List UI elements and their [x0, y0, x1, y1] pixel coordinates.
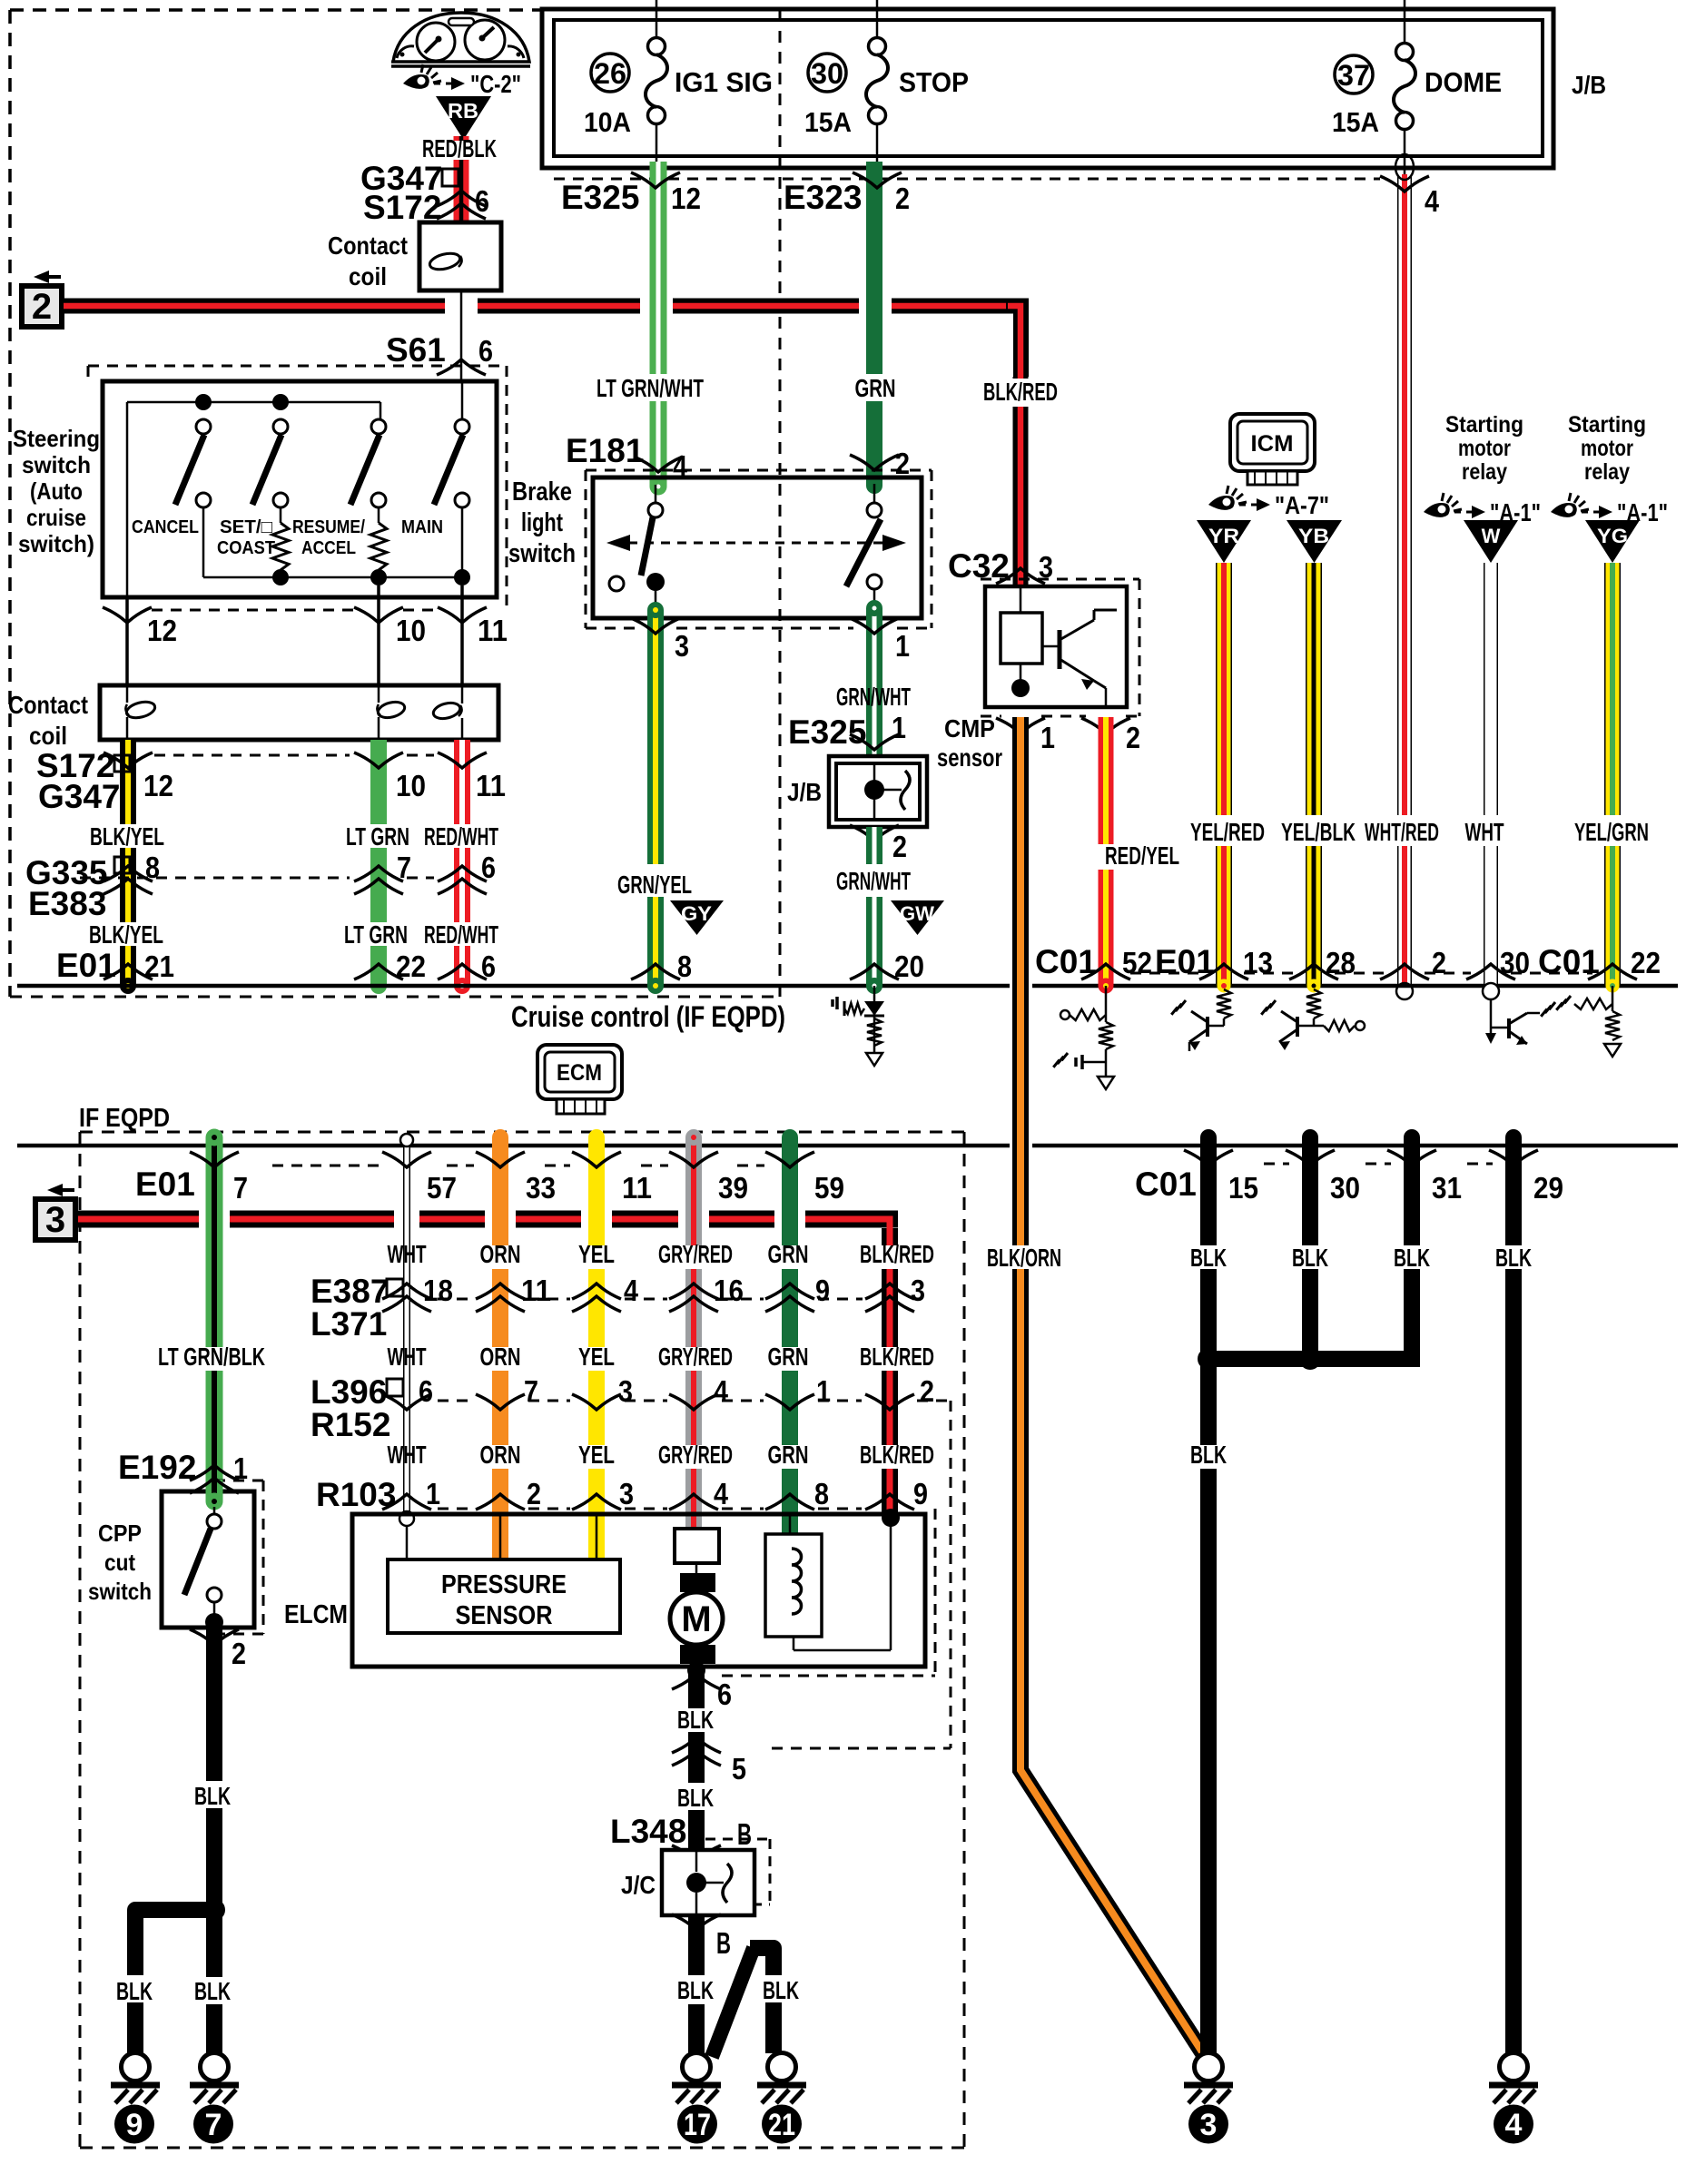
transistor network under C01-30 [1485, 999, 1555, 1045]
label BLK wire15 [1190, 1441, 1227, 1469]
label BLK/ORN [987, 1244, 1061, 1272]
connector C01 pin 52 [1035, 943, 1152, 980]
ELCM dashed boundary [722, 1509, 935, 1676]
svg-text:11: 11 [622, 1171, 652, 1205]
svg-text:ORN: ORN [480, 1240, 521, 1268]
svg-text:CPP: CPP [98, 1520, 142, 1547]
svg-text:30: 30 [1330, 1171, 1360, 1205]
connector E325 pin 12 [561, 172, 701, 216]
svg-text:LT GRN/BLK: LT GRN/BLK [158, 1343, 265, 1371]
svg-text:BLK: BLK [1190, 1441, 1227, 1469]
ICM icon [1230, 414, 1315, 485]
wire BLK elbow to ground 21 [712, 1940, 782, 2057]
svg-text:BLK: BLK [677, 1706, 714, 1734]
svg-text:GRY/RED: GRY/RED [658, 1240, 733, 1268]
svg-text:SET/□: SET/□ [220, 517, 272, 537]
wire LT GRN/WHT from fuse 26 [650, 162, 667, 496]
fuse 37 DOME 15A [1332, 44, 1502, 139]
brake switch right contact [846, 484, 882, 618]
BLK junction bar [1198, 1348, 1420, 1370]
diode-resistor network under E01-20 [833, 986, 884, 1066]
label Contact coil lower [8, 691, 88, 750]
brake light switch dashed box [586, 470, 932, 628]
svg-text:LT GRN: LT GRN [346, 822, 409, 851]
svg-text:LT GRN: LT GRN [344, 920, 408, 949]
svg-text:3: 3 [45, 1200, 65, 1240]
connector R103 row [316, 1476, 928, 1513]
svg-text:Cruise control (IF EQPD): Cruise control (IF EQPD) [511, 1000, 785, 1033]
eye symbol to C-2 [403, 64, 521, 98]
switch SET/COAST with resistor [217, 419, 289, 570]
connector S172/G347 row [36, 747, 506, 815]
svg-text:C01: C01 [1135, 1166, 1197, 1203]
wire fuse feed IG1 [656, 0, 658, 38]
svg-text:7: 7 [205, 2108, 222, 2142]
ground 3 [1184, 2053, 1233, 2104]
triangle GY [670, 900, 724, 935]
fuse 30 STOP 15A [804, 38, 969, 139]
svg-text:E192: E192 [118, 1449, 196, 1486]
svg-text:4: 4 [1505, 2108, 1523, 2142]
svg-text:BLK: BLK [677, 1784, 714, 1812]
ELCM motor assembly [670, 1529, 723, 1664]
resistor network under C01-52 [1053, 986, 1114, 1089]
svg-text:4: 4 [1425, 184, 1440, 218]
instrument cluster icon [391, 13, 530, 66]
svg-text:12: 12 [147, 614, 177, 647]
ground 21 number [762, 2105, 802, 2144]
connector E181 pins 3 and 1 [631, 618, 910, 663]
ground 3 number [1188, 2105, 1228, 2144]
svg-text:1: 1 [892, 711, 906, 744]
junction connector J/C box [621, 1839, 770, 1915]
svg-text:4: 4 [714, 1477, 729, 1510]
svg-text:E01: E01 [135, 1166, 195, 1203]
svg-text:BLK: BLK [1394, 1244, 1430, 1272]
svg-text:DOME: DOME [1425, 66, 1502, 98]
svg-text:COAST: COAST [217, 538, 275, 558]
svg-text:RESUME/: RESUME/ [292, 517, 365, 537]
connector E181 pins 4 and 2 [566, 432, 932, 483]
svg-text:8: 8 [677, 949, 692, 983]
connector S61 pin 6 [386, 331, 493, 375]
ground 7 [190, 2053, 239, 2104]
label GRN fuse30 [855, 374, 896, 402]
wire BLK C01-15 to ground 3 [1200, 1129, 1217, 2053]
harness line E01/C01 top [17, 984, 1678, 989]
eye symbol to A-1 second [1551, 493, 1668, 526]
svg-text:L371: L371 [311, 1305, 387, 1343]
connector L348 B [610, 1813, 752, 1861]
steering switch top bus wire [127, 402, 380, 597]
svg-text:11: 11 [521, 1274, 551, 1307]
svg-text:10: 10 [396, 769, 426, 802]
svg-text:E383: E383 [28, 885, 106, 922]
svg-text:(Auto: (Auto [30, 477, 83, 505]
svg-text:9: 9 [913, 1477, 928, 1510]
ground 7 number [193, 2105, 233, 2144]
svg-text:Contact: Contact [8, 691, 88, 719]
svg-text:GW: GW [900, 902, 934, 925]
svg-text:switch: switch [88, 1578, 152, 1605]
connector E01 pin 20 [850, 949, 924, 983]
wire fuse37 to pin4 [1404, 129, 1406, 174]
ECM icon [537, 1045, 622, 1114]
svg-text:SENSOR: SENSOR [456, 1601, 553, 1630]
svg-text:YEL/BLK: YEL/BLK [1281, 818, 1356, 846]
svg-text:B: B [737, 1817, 752, 1851]
svg-text:29: 29 [1533, 1171, 1563, 1205]
svg-text:C01: C01 [1538, 943, 1600, 980]
C32 dashed box [981, 579, 1139, 716]
svg-text:relay: relay [1462, 459, 1507, 485]
svg-text:E181: E181 [566, 432, 644, 469]
connector E01 bottom row [135, 1152, 844, 1205]
svg-text:YEL: YEL [578, 1343, 615, 1371]
PRESSURE SENSOR box [388, 1514, 620, 1633]
svg-text:ECM: ECM [557, 1060, 602, 1086]
switch RESUME/ACCEL with resistor [292, 419, 387, 570]
wire GRN/WHT brake switch to E325 [866, 600, 882, 756]
brake switch dashed double arrow [606, 535, 906, 551]
svg-text:ICM: ICM [1251, 431, 1294, 457]
svg-text:BLK/RED: BLK/RED [860, 1240, 934, 1268]
wire BLK motor to JC [687, 1661, 705, 1850]
connector triangle RB [436, 96, 491, 140]
svg-text:G347: G347 [38, 778, 121, 815]
wire LT GRN from contact coil [370, 740, 387, 994]
wire WHT to C01-30 [1483, 563, 1499, 999]
svg-text:2: 2 [895, 182, 910, 215]
svg-text:2: 2 [232, 1637, 246, 1670]
wire YEL [588, 1129, 605, 1559]
svg-text:MAIN: MAIN [401, 517, 443, 537]
wire contact coil to S61 [460, 290, 463, 381]
svg-text:3: 3 [675, 629, 689, 663]
svg-text:37: 37 [1337, 59, 1370, 92]
labels BLK/YEL LT GRN RED/WHT row2 [89, 920, 498, 949]
svg-text:BLK: BLK [677, 1976, 714, 2004]
wire BLK from CPP [206, 1628, 222, 2053]
connector row dashed under J/B [554, 178, 1380, 181]
svg-text:16: 16 [714, 1274, 744, 1307]
svg-text:22: 22 [396, 949, 426, 983]
junction block J/B outer box [542, 9, 1553, 168]
svg-text:L348: L348 [610, 1813, 686, 1850]
connector triangle YR [1197, 520, 1251, 563]
svg-text:M: M [681, 1599, 711, 1639]
svg-text:9: 9 [815, 1274, 830, 1307]
wire BLK/RED bottom to R103-9 [882, 1228, 898, 1514]
wire GRN/WHT to E01-20 [866, 827, 882, 994]
svg-text:6: 6 [481, 949, 496, 983]
label IF EQPD [79, 1104, 170, 1133]
svg-text:E325: E325 [561, 179, 639, 216]
CMP sensor box C32 [985, 586, 1127, 707]
labels wire colors row 3 [388, 1441, 935, 1469]
svg-text:GRN: GRN [768, 1343, 809, 1371]
svg-text:5: 5 [732, 1752, 746, 1786]
svg-text:RB: RB [448, 99, 478, 123]
svg-text:31: 31 [1432, 1171, 1462, 1205]
svg-text:GRY/RED: GRY/RED [658, 1441, 733, 1469]
ground 9 [111, 2053, 160, 2104]
steering switch outer dashed box [88, 366, 507, 608]
svg-text:1: 1 [426, 1477, 440, 1510]
svg-text:4: 4 [714, 1374, 729, 1408]
svg-text:CANCEL: CANCEL [132, 517, 199, 537]
svg-text:10A: 10A [584, 106, 631, 138]
svg-text:BLK/RED: BLK/RED [860, 1343, 934, 1371]
svg-text:WHT/RED: WHT/RED [1365, 818, 1439, 846]
wire YEL/GRN to C01-22 [1606, 563, 1620, 993]
svg-text:GRN: GRN [768, 1441, 809, 1469]
label ELCM [284, 1600, 348, 1629]
svg-text:J/C: J/C [621, 1871, 656, 1899]
svg-text:IG1 SIG: IG1 SIG [675, 66, 773, 98]
svg-text:C01: C01 [1035, 943, 1097, 980]
wire RED/WHT from contact coil [454, 740, 470, 994]
brake light switch box [593, 477, 922, 618]
svg-text:RED/BLK: RED/BLK [422, 134, 497, 162]
cruise region dashed vertical border [779, 10, 782, 997]
connector E01 pins 13 28 [1155, 943, 1356, 980]
svg-text:33: 33 [526, 1171, 556, 1205]
svg-text:"C-2": "C-2" [470, 70, 521, 98]
svg-text:15: 15 [1228, 1171, 1258, 1205]
label GRN/WHT lower [836, 867, 911, 895]
svg-text:GRN: GRN [855, 374, 896, 402]
steering connector row 12 10 11 [103, 607, 508, 647]
label BLK cpp upper [194, 1782, 231, 1810]
svg-text:J/B: J/B [1572, 71, 1606, 99]
svg-text:YG: YG [1597, 525, 1628, 547]
junction block J/B inner box [554, 20, 1543, 156]
svg-text:18: 18 [423, 1274, 453, 1307]
power bus corner to BLK/RED bottom [879, 1211, 898, 1235]
svg-text:6: 6 [478, 334, 493, 368]
svg-text:BLK: BLK [116, 1977, 153, 2005]
svg-text:BLK/ORN: BLK/ORN [987, 1244, 1061, 1272]
svg-text:1: 1 [1040, 721, 1055, 754]
svg-text:LT GRN/WHT: LT GRN/WHT [597, 374, 704, 402]
label GRN/YEL [617, 871, 692, 899]
wire fuse feed STOP [876, 0, 879, 38]
svg-text:3: 3 [911, 1274, 925, 1307]
svg-text:7: 7 [524, 1374, 538, 1408]
svg-text:BLK: BLK [194, 1977, 231, 2005]
svg-text:YB: YB [1298, 525, 1329, 547]
wire GRN bottom [782, 1129, 798, 1534]
label CMP sensor [937, 714, 1002, 772]
svg-text:CMP: CMP [944, 714, 995, 743]
connector G347/S172 pin 6 [360, 160, 489, 226]
wire fuse26 to J/B bottom [656, 123, 658, 163]
connector G335/E383 row [25, 851, 496, 922]
switch MAIN [401, 381, 469, 570]
svg-text:21: 21 [768, 2108, 795, 2142]
svg-text:3: 3 [1200, 2108, 1218, 2142]
svg-text:17: 17 [684, 2108, 711, 2142]
ground 17 [672, 2053, 721, 2104]
transistor network under E01-28 [1261, 989, 1365, 1050]
power feed box 2 with arrow [22, 271, 62, 327]
eye symbol to A-7 [1208, 486, 1329, 519]
svg-text:1: 1 [816, 1374, 831, 1408]
connector C01 bottom row [1135, 1150, 1563, 1205]
label BLK 6 [677, 1706, 714, 1734]
svg-text:RED/WHT: RED/WHT [424, 920, 498, 949]
label Starting motor relay 2 [1568, 412, 1646, 485]
BLK branch to ground 9 [127, 1899, 225, 2059]
svg-text:motor: motor [1458, 436, 1511, 461]
svg-text:39: 39 [718, 1171, 748, 1205]
wire WHT/RED from J/B-4 to C01-2 [1396, 174, 1413, 999]
svg-text:Contact: Contact [328, 231, 408, 260]
svg-text:WHT: WHT [1465, 818, 1504, 846]
svg-text:57: 57 [427, 1171, 457, 1205]
connector J/B pin 4 [1380, 154, 1440, 218]
connector triangle YB [1287, 520, 1342, 563]
CPP dashed box [214, 1481, 263, 1634]
triangle GW [891, 900, 944, 935]
svg-text:E387: E387 [311, 1273, 389, 1310]
label RED/BLK [422, 134, 497, 162]
brake switch left contact [609, 485, 665, 618]
connector row 5 [672, 1737, 746, 1786]
wire RED/YEL from CMP to C01-52 [1099, 717, 1114, 994]
svg-text:L396: L396 [311, 1373, 387, 1411]
fuse 26 IG1 SIG 10A [584, 38, 773, 139]
labels wire colors row 2 [388, 1343, 935, 1371]
label RED/YEL [1105, 841, 1179, 870]
resistor network under C01-22 [1556, 986, 1621, 1057]
wire GRN/YEL brake switch to E01-8 [647, 602, 664, 994]
label LT GRN/BLK [158, 1343, 265, 1371]
svg-text:GRN/YEL: GRN/YEL [617, 871, 692, 899]
ground 21 [757, 2053, 806, 2104]
svg-text:7: 7 [233, 1171, 248, 1205]
wire BLK C01-29 to ground 4 [1505, 1129, 1522, 2053]
connector E192 pin 1 [118, 1449, 248, 1493]
CPP switch contacts [184, 1507, 223, 1631]
labels BLK/YEL LT GRN RED/WHT row1 [90, 822, 498, 851]
steering switch box [103, 381, 497, 597]
wire fuse feed DOME [1404, 0, 1406, 44]
svg-text:7: 7 [397, 851, 411, 884]
connector ELCM pin 6 [672, 1674, 732, 1711]
svg-text:E323: E323 [784, 179, 862, 216]
power bus corner down to BLK/RED [1006, 299, 1029, 378]
connector row dashed right [1130, 972, 1592, 975]
svg-text:GRN/WHT: GRN/WHT [836, 683, 911, 711]
svg-text:BLK/RED: BLK/RED [860, 1441, 934, 1469]
wire YEL/RED to E01-13 [1218, 563, 1231, 993]
svg-text:BLK: BLK [194, 1782, 231, 1810]
ELCM box [352, 1514, 925, 1667]
svg-text:cruise: cruise [26, 504, 86, 531]
svg-text:2: 2 [920, 1374, 934, 1408]
svg-text:light: light [521, 508, 563, 537]
svg-text:BLK: BLK [1292, 1244, 1328, 1272]
svg-text:E325: E325 [788, 713, 866, 751]
J/B label [1572, 71, 1606, 99]
CMP sensor internals [1001, 586, 1117, 707]
wire BLK C01-31 [1404, 1129, 1420, 1367]
wire BLK C01-30 [1302, 1129, 1318, 1367]
connector E387/L371 row [311, 1273, 925, 1343]
steering switch bottom bus wire [203, 507, 462, 577]
svg-text:BLK/YEL: BLK/YEL [89, 920, 163, 949]
svg-text:2: 2 [895, 447, 910, 480]
connector C01 pins 30 22 [1466, 943, 1661, 980]
svg-text:GY: GY [681, 902, 712, 925]
ground 9 number [114, 2105, 154, 2144]
label BLK ground17 [672, 1975, 721, 2004]
svg-text:Starting: Starting [1568, 412, 1646, 438]
svg-text:WHT: WHT [388, 1240, 427, 1268]
wire BLK/ORN from CMP down [1012, 717, 1029, 1766]
labels wire colors row 1 [388, 1240, 935, 1268]
svg-text:GRN: GRN [768, 1240, 809, 1268]
connector E325 pin 1 [788, 711, 906, 751]
CPP cut switch box [162, 1491, 254, 1628]
svg-text:B: B [716, 1926, 731, 1960]
svg-text:BLK/YEL: BLK/YEL [90, 822, 164, 851]
svg-text:RED/WHT: RED/WHT [424, 822, 498, 851]
svg-text:2: 2 [1126, 721, 1140, 754]
cruise region dashed bottom border [10, 996, 780, 999]
svg-text:1: 1 [895, 629, 910, 663]
svg-text:ORN: ORN [480, 1343, 521, 1371]
R152 dashed boundary right [772, 1401, 951, 1748]
svg-text:Brake: Brake [512, 477, 572, 507]
label BLK ground9 [111, 1975, 160, 2005]
wire GRN from fuse 30 [866, 162, 882, 494]
connector L396/R152 row [311, 1373, 951, 1443]
ground 17 number [677, 2105, 717, 2144]
svg-text:cut: cut [104, 1549, 135, 1576]
svg-text:BLK: BLK [763, 1976, 799, 2004]
svg-text:12: 12 [671, 182, 701, 215]
connector triangle W [1464, 520, 1518, 563]
svg-text:3: 3 [618, 1374, 633, 1408]
wire BLK/ORN diagonal to ground 3 [1020, 1756, 1203, 2053]
svg-text:switch): switch) [18, 530, 94, 557]
label CPP cut switch [88, 1520, 152, 1605]
switch CANCEL [132, 419, 211, 537]
connector CMP pins 1 2 [996, 718, 1140, 754]
svg-text:10: 10 [396, 614, 426, 647]
label LT GRN/WHT [597, 374, 704, 402]
connector E325 pin 2 below [850, 825, 907, 863]
svg-text:WHT: WHT [388, 1441, 427, 1469]
svg-text:26: 26 [594, 57, 626, 90]
svg-text:motor: motor [1581, 436, 1633, 461]
label WHT/RED [1365, 818, 1439, 846]
svg-text:GRY/RED: GRY/RED [658, 1343, 733, 1371]
label BLK ground21 [757, 1975, 806, 2004]
svg-text:YEL/GRN: YEL/GRN [1574, 818, 1649, 846]
svg-text:YEL: YEL [578, 1240, 615, 1268]
svg-text:switch: switch [22, 451, 91, 478]
harness line E01/C01 bottom [17, 1144, 1678, 1148]
label Steering switch (Auto cruise switch) [13, 425, 100, 557]
svg-text:6: 6 [717, 1677, 732, 1711]
wire RED/BLK instrument to contact coil [454, 136, 469, 222]
svg-text:IF EQPD: IF EQPD [79, 1104, 170, 1133]
svg-text:21: 21 [144, 949, 174, 983]
